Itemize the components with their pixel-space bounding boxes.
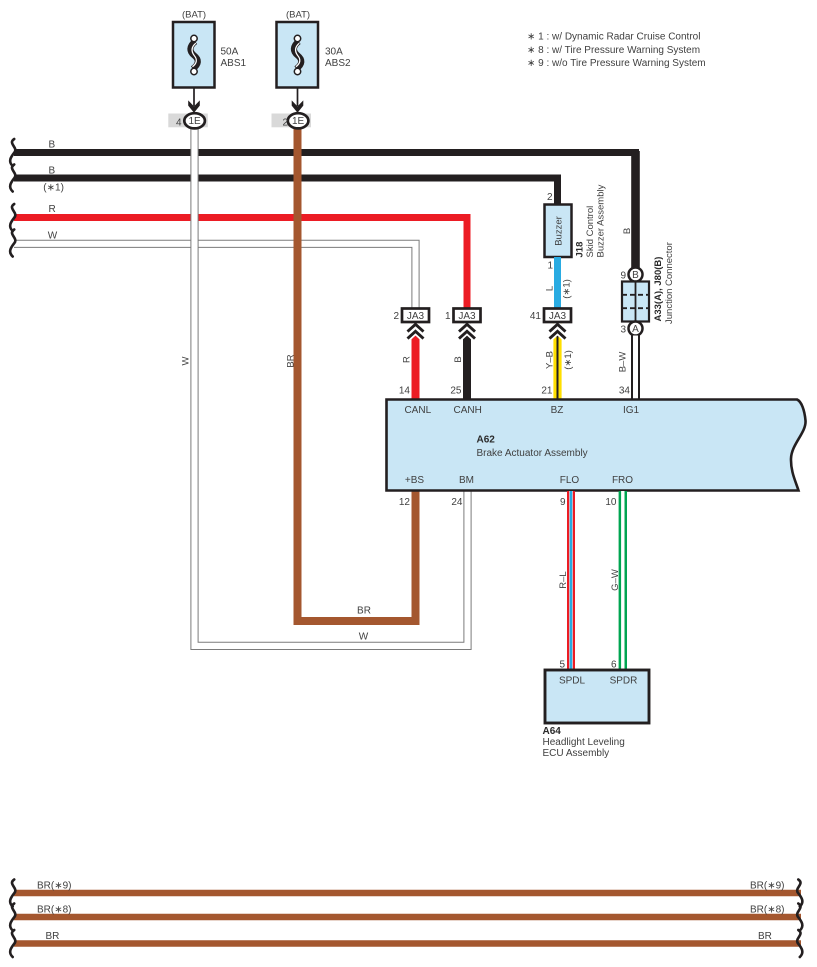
- svg-text:BR(∗8): BR(∗8): [750, 905, 785, 916]
- svg-text:∗ 9 : w/o Tire Pressure Warnin: ∗ 9 : w/o Tire Pressure Warning System: [527, 58, 706, 69]
- svg-text:Y–B: Y–B: [545, 351, 556, 369]
- svg-text:JA3: JA3: [549, 311, 567, 322]
- svg-text:R–L: R–L: [558, 571, 569, 588]
- svg-text:Skid Control: Skid Control: [585, 206, 596, 258]
- svg-text:A62: A62: [477, 435, 496, 446]
- svg-text:∗ 1 : w/ Dynamic Radar Cruise: ∗ 1 : w/ Dynamic Radar Cruise Control: [527, 32, 700, 43]
- svg-text:J18: J18: [575, 242, 586, 258]
- svg-text:(∗1): (∗1): [562, 279, 573, 299]
- svg-text:R: R: [49, 204, 56, 215]
- svg-text:ECU Assembly: ECU Assembly: [543, 748, 610, 759]
- svg-text:BR(∗8): BR(∗8): [37, 905, 72, 916]
- svg-text:41: 41: [530, 311, 542, 322]
- svg-text:10: 10: [605, 497, 617, 508]
- svg-text:BZ: BZ: [551, 405, 564, 416]
- svg-text:34: 34: [619, 386, 631, 397]
- svg-text:SPDR: SPDR: [610, 676, 638, 687]
- svg-text:SPDL: SPDL: [559, 676, 586, 687]
- svg-text:BR: BR: [286, 354, 297, 367]
- svg-text:BR(∗9): BR(∗9): [750, 881, 785, 892]
- svg-text:BR: BR: [357, 606, 371, 617]
- svg-text:14: 14: [399, 386, 411, 397]
- svg-text:B: B: [632, 270, 639, 281]
- svg-text:24: 24: [451, 497, 463, 508]
- svg-text:+BS: +BS: [405, 475, 425, 486]
- svg-text:1: 1: [547, 261, 553, 272]
- svg-text:1: 1: [445, 311, 451, 322]
- svg-text:CANH: CANH: [454, 405, 482, 416]
- svg-text:CANL: CANL: [404, 405, 431, 416]
- svg-text:3: 3: [620, 325, 626, 336]
- svg-text:(∗1): (∗1): [43, 183, 64, 194]
- svg-text:W: W: [359, 632, 369, 643]
- svg-text:FLO: FLO: [560, 475, 580, 486]
- svg-text:BM: BM: [459, 475, 474, 486]
- svg-text:BR: BR: [758, 931, 772, 942]
- svg-text:1E: 1E: [292, 116, 305, 127]
- svg-text:B: B: [49, 166, 56, 177]
- svg-text:2: 2: [547, 192, 553, 203]
- svg-text:4: 4: [176, 117, 182, 128]
- svg-text:IG1: IG1: [623, 405, 640, 416]
- svg-text:12: 12: [399, 497, 411, 508]
- svg-text:1E: 1E: [188, 116, 201, 127]
- svg-text:Brake Actuator Assembly: Brake Actuator Assembly: [477, 448, 588, 459]
- svg-text:21: 21: [541, 386, 553, 397]
- svg-text:2: 2: [393, 311, 399, 322]
- svg-text:ABS1: ABS1: [221, 58, 247, 69]
- svg-text:(BAT): (BAT): [182, 10, 206, 21]
- svg-text:BR(∗9): BR(∗9): [37, 881, 72, 892]
- svg-text:(∗1): (∗1): [563, 350, 574, 370]
- svg-text:∗ 8 : w/ Tire Pressure Warning: ∗ 8 : w/ Tire Pressure Warning System: [527, 45, 700, 56]
- svg-text:W: W: [181, 356, 192, 365]
- svg-text:R: R: [402, 356, 413, 363]
- svg-text:25: 25: [450, 386, 462, 397]
- svg-text:Headlight Leveling: Headlight Leveling: [543, 737, 625, 748]
- svg-text:B: B: [622, 228, 633, 234]
- svg-text:W: W: [48, 231, 58, 242]
- svg-text:JA3: JA3: [458, 311, 476, 322]
- svg-text:Junction Connector: Junction Connector: [664, 242, 675, 324]
- svg-text:ABS2: ABS2: [325, 58, 351, 69]
- svg-text:Buzzer: Buzzer: [554, 216, 565, 246]
- svg-text:G–W: G–W: [610, 569, 621, 591]
- svg-text:50A: 50A: [221, 47, 239, 58]
- svg-text:JA3: JA3: [407, 311, 425, 322]
- svg-text:9: 9: [560, 497, 566, 508]
- svg-text:A33(A), J80(B): A33(A), J80(B): [653, 257, 664, 322]
- svg-text:2: 2: [282, 117, 288, 128]
- svg-text:FRO: FRO: [612, 475, 633, 486]
- svg-text:B: B: [49, 140, 56, 151]
- svg-text:L: L: [545, 286, 556, 291]
- svg-text:B: B: [453, 356, 464, 362]
- svg-text:9: 9: [620, 271, 626, 282]
- svg-text:A: A: [632, 324, 639, 335]
- svg-text:(BAT): (BAT): [286, 10, 310, 21]
- svg-text:B–W: B–W: [618, 352, 629, 373]
- svg-text:A64: A64: [543, 726, 562, 737]
- svg-text:Buzzer Assembly: Buzzer Assembly: [596, 184, 607, 257]
- svg-text:BR: BR: [46, 931, 60, 942]
- svg-text:30A: 30A: [325, 47, 343, 58]
